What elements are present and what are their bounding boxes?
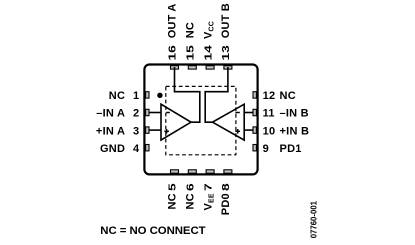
package outline xyxy=(144,65,257,175)
svg-text:NC: NC xyxy=(167,193,179,209)
pin 5 pad xyxy=(171,170,179,173)
svg-text:VEE: VEE xyxy=(202,193,215,210)
pin 1 pad xyxy=(146,92,149,98)
pin 15 pad xyxy=(188,66,196,69)
pin 4 number xyxy=(133,143,140,155)
svg-text:11: 11 xyxy=(263,108,275,120)
svg-text:GND: GND xyxy=(100,143,125,155)
svg-text:10: 10 xyxy=(263,125,276,137)
pin 1 number xyxy=(133,90,139,102)
svg-text:PD0: PD0 xyxy=(220,193,232,215)
op-amp B inverting input sign xyxy=(235,112,239,114)
pin 13 pad xyxy=(224,66,232,69)
svg-text:4: 4 xyxy=(133,143,140,155)
svg-text:NC = NO CONNECT: NC = NO CONNECT xyxy=(100,225,205,237)
pin 15 label NC xyxy=(185,22,197,38)
pin 10 label +IN B xyxy=(280,125,310,137)
pin 16 label OUT A xyxy=(167,3,179,38)
pin 12 label NC xyxy=(280,90,296,102)
svg-text:NC: NC xyxy=(185,193,197,209)
wire +IN B (pin 10 to op-amp B) xyxy=(244,129,254,131)
pin 5 number xyxy=(166,183,178,191)
pin 3 pad xyxy=(146,127,149,133)
pin 2 pad xyxy=(146,109,149,115)
svg-text:8: 8 xyxy=(220,183,232,191)
svg-text:PD1: PD1 xyxy=(280,143,302,155)
pin 9 number xyxy=(263,143,269,155)
op-amp A xyxy=(161,104,191,140)
wire OUT A (pin 16 to op-amp A output) xyxy=(175,67,200,122)
pin 12 pad xyxy=(253,92,256,98)
svg-text:14: 14 xyxy=(202,45,214,61)
op-amp B xyxy=(213,104,245,140)
pin 14 label VCC xyxy=(202,21,215,39)
pin 11 label -IN B xyxy=(280,108,309,120)
svg-text:1: 1 xyxy=(133,90,139,102)
pin 7 label VEE xyxy=(202,193,215,210)
wire -IN A (pin 2 to op-amp A) xyxy=(149,112,162,114)
pin 7 pad xyxy=(206,170,214,173)
svg-text:+IN B: +IN B xyxy=(280,125,310,137)
pin 11 number xyxy=(263,108,275,120)
op-amp B non-inverting input sign xyxy=(235,129,240,134)
pin 5 label NC xyxy=(167,193,179,209)
svg-text:NC: NC xyxy=(109,90,125,102)
pin 9 pad xyxy=(253,145,256,151)
pin 2 number xyxy=(133,108,139,120)
svg-text:2: 2 xyxy=(133,108,139,120)
pin 3 label +IN A xyxy=(96,125,125,137)
pin 14 pad xyxy=(206,66,214,69)
pin 10 number xyxy=(263,125,276,137)
svg-text:–IN B: –IN B xyxy=(280,108,309,120)
pin 4 label GND xyxy=(100,143,125,155)
pin 1 label NC xyxy=(109,90,125,102)
pin 16 number xyxy=(166,45,178,61)
pin 2 label -IN A xyxy=(96,108,125,120)
svg-text:OUT A: OUT A xyxy=(167,3,179,38)
svg-text:NC: NC xyxy=(185,22,197,38)
pin 13 label OUT B xyxy=(220,3,232,38)
svg-text:6: 6 xyxy=(184,183,196,191)
op-amp A inverting input sign xyxy=(166,112,170,114)
figure number 07760-001 xyxy=(309,200,318,238)
pin 4 pad xyxy=(146,145,149,151)
pin 8 pad xyxy=(224,170,232,173)
pin 1 indicator dot xyxy=(157,93,162,98)
svg-text:3: 3 xyxy=(133,125,139,137)
pin 15 number xyxy=(184,45,196,61)
pin 14 number xyxy=(202,45,214,61)
pin 7 number xyxy=(202,183,214,191)
svg-text:OUT B: OUT B xyxy=(220,3,232,38)
pin 16 pad xyxy=(171,66,179,69)
pin 8 label PD0 xyxy=(220,193,232,215)
svg-text:9: 9 xyxy=(263,143,269,155)
svg-text:5: 5 xyxy=(166,183,178,191)
pin 8 number xyxy=(220,183,232,191)
pin 3 number xyxy=(133,125,139,137)
note NC = NO CONNECT xyxy=(100,225,205,237)
wire OUT B (pin 13 to op-amp B output) xyxy=(205,67,228,122)
svg-text:VCC: VCC xyxy=(202,21,215,39)
power-down dashed boundary xyxy=(166,86,236,154)
op-amp A non-inverting input sign xyxy=(164,129,169,134)
svg-text:7: 7 xyxy=(202,183,214,191)
svg-text:07760-001: 07760-001 xyxy=(309,200,318,238)
pin 13 number xyxy=(220,45,232,61)
pin 9 label PD1 xyxy=(280,143,302,155)
pin 6 pad xyxy=(188,170,196,173)
wire +IN A (pin 3 to op-amp A) xyxy=(149,129,162,131)
svg-text:13: 13 xyxy=(220,45,232,61)
pin 6 number xyxy=(184,183,196,191)
svg-text:15: 15 xyxy=(184,45,196,61)
pin 12 number xyxy=(263,90,276,102)
pin 11 pad xyxy=(253,109,256,115)
pin 10 pad xyxy=(253,127,256,133)
svg-text:–IN A: –IN A xyxy=(96,108,125,120)
pin 6 label NC xyxy=(185,193,197,209)
svg-text:NC: NC xyxy=(280,90,296,102)
wire -IN B (pin 11 to op-amp B) xyxy=(244,112,254,114)
svg-text:12: 12 xyxy=(263,90,276,102)
svg-text:16: 16 xyxy=(166,45,178,61)
svg-text:+IN A: +IN A xyxy=(96,125,125,137)
